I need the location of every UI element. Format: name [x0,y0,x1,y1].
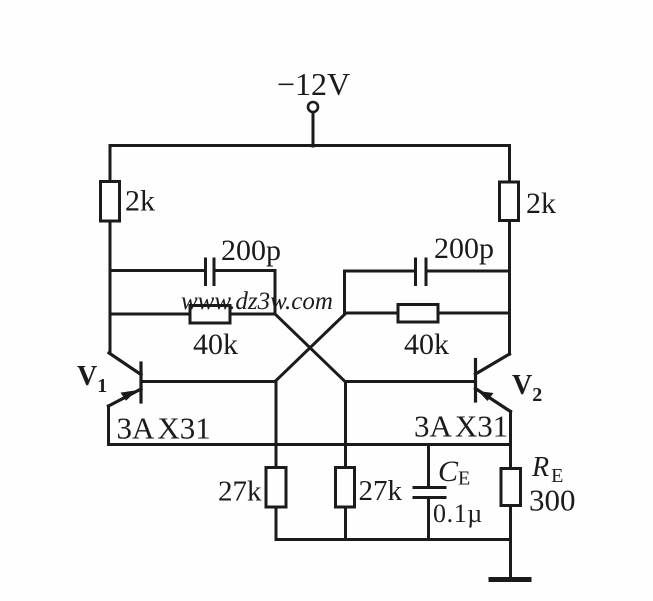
wire bias branch 1 upper [275,382,278,468]
wire right rail lower [508,221,511,355]
svg-text:2k: 2k [125,185,155,218]
svg-text:40k: 40k [193,328,238,361]
wire bias branch 2 upper [344,382,347,468]
wire V2 base [346,380,476,383]
svg-text:200p: 200p [221,234,281,267]
power terminal -12V [308,102,318,146]
svg-text:CE: CE [438,455,470,490]
wire 200p-left left segment [110,269,204,272]
svg-text:2k: 2k [526,187,556,220]
svg-text:3AX31: 3AX31 [414,409,508,444]
svg-text:27k: 27k [218,476,262,508]
wire V2 emitter drop [509,412,512,445]
svg-text:0.1µ: 0.1µ [433,499,483,528]
wire V1 base [141,380,276,383]
wire RE top lead [509,445,512,469]
capacitor 200p left [206,259,215,285]
wire 40k-right left segment [345,312,399,315]
svg-text:300: 300 [529,483,576,518]
wire left rail upper [109,146,112,183]
wire left rail lower [109,221,112,353]
wire 40k-left right segment [230,313,275,316]
wire cross-coupling diagonal left-to-right [275,314,345,382]
wire top rail [110,144,510,147]
wire CE top lead [427,445,430,488]
wire 200p-right left segment [345,271,415,313]
wire CE bottom lead [427,498,430,540]
wire 200p-left right segment [215,271,275,315]
wire 200p-right right segment [427,270,510,273]
wire cross-coupling diagonal right-to-left [275,314,345,382]
resistor RE [501,469,521,506]
svg-text:27k: 27k [359,475,403,507]
resistor 27k left [266,468,286,508]
svg-text:40k: 40k [404,328,449,361]
wire emitter bus [109,443,511,446]
wire bias branch 2 lower [344,507,347,540]
svg-text:V2: V2 [512,370,542,406]
svg-text:200p: 200p [434,232,494,265]
wire 40k-right right segment [438,312,510,315]
wire 40k-left left segment [110,313,190,316]
resistor 27k right [336,468,355,508]
resistor 2k right [500,182,519,221]
capacitor 200p right [416,259,427,285]
wire V1 emitter drop [107,406,110,445]
wire bottom bus [276,538,511,541]
resistor 40k left [190,306,230,324]
svg-text:V1: V1 [77,361,107,397]
capacitor CE [414,488,445,498]
resistor 40k right [398,305,438,323]
svg-text:3AX31: 3AX31 [117,411,211,446]
wire right rail upper [508,146,511,183]
resistor 2k left [101,182,120,222]
transistor Q2 V2 [476,354,511,412]
ground [491,577,529,582]
svg-text:www.dz3w.com: www.dz3w.com [181,288,333,315]
wire RE bottom lead to ground [509,506,512,579]
transistor Q1 V1 [109,353,142,406]
svg-text:−12V: −12V [277,66,350,102]
wire bias branch 1 lower [275,507,278,540]
